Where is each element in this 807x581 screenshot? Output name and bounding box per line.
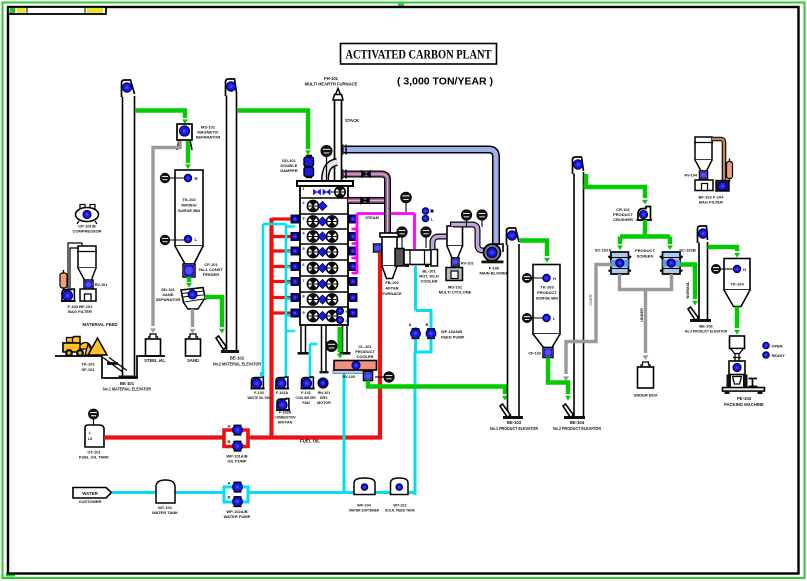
svg-text:PRODUCT: PRODUCT [537,290,557,295]
bucket elevator BE-101 column [119,96,138,379]
product surge bin TK-103 [522,265,560,348]
gauge right of BL-101 [421,227,431,248]
silencer capsule F-104 [727,159,733,183]
furnace burner nozzles left/right [291,215,358,318]
label RH-101 [317,391,331,405]
label SC-102B [679,248,696,253]
label F-101 [296,391,317,405]
green pipe SD-101 to BE-102 boot [205,297,225,334]
water tank WT-101 [152,480,178,515]
svg-text:CRUSHER: CRUSHER [613,217,633,222]
svg-text:COMBUSTION: COMBUSTION [275,416,296,420]
green pipe BE-106 to TK-104 [708,247,741,258]
svg-text:F-103: F-103 [254,391,264,395]
gauge above steam header [401,192,412,212]
green pipe CF-101 to SD-101 [186,277,192,288]
label UNDER [639,308,644,322]
surge bin TK-102 [160,170,203,264]
drum STEEL etc [144,334,166,363]
fuel oil tank OT-101 [85,409,104,447]
green pipe BE-101 to MS-101 [135,111,188,125]
cyan branch cooling dry fan [310,342,319,377]
label BE-102 [213,356,261,367]
water pump WP-102A [228,481,243,493]
svg-text:PRODUCT: PRODUCT [635,248,655,253]
bucket elevator BE-103 head [507,228,520,245]
red pipe riser to furnace burners [269,218,273,440]
svg-text:TK-104: TK-104 [730,282,744,287]
sand separator SD-101 [181,288,206,310]
svg-text:H: H [195,176,198,181]
svg-text:WATER: WATER [82,491,98,496]
label BE-103 [490,420,538,431]
label F-106 [479,266,508,276]
feed pump WF-102A [409,322,421,339]
svg-text:H: H [346,310,349,314]
bag filter BF-101 hopper box [80,289,96,301]
svg-text:FB-102: FB-102 [385,280,399,285]
valve RV-102 [452,258,474,266]
svg-text:BAG FILTER: BAG FILTER [699,200,723,205]
svg-text:PACKING MACHINE: PACKING MACHINE [724,402,764,407]
cyan pipe water pump loop [224,487,248,502]
multi hearth furnace FH-101 body [297,181,353,325]
label OT-101 [79,450,109,460]
svg-text:RH-101: RH-101 [318,391,331,395]
gray over-size return line [563,265,611,382]
double damper DD-101 [304,156,314,178]
label MD-101 [439,285,472,295]
product screen SC-102A [609,252,632,274]
title box ACTIVATED CARBON PLANT [341,44,497,65]
green pipe CF-102 to BE-104 boot [548,358,571,401]
valve RV-104 [684,171,707,179]
green pipe MS-101 to TK-102 [185,141,191,169]
product screen SC-102B [660,252,683,274]
svg-text:No.1 MATERIAL ELEVATOR: No.1 MATERIAL ELEVATOR [103,387,151,392]
fan F-103 waste oil [251,372,265,389]
furnace top gauge [321,145,332,181]
svg-text:AFTER: AFTER [385,286,398,291]
gray under-size line to under box [620,274,672,360]
svg-text:COOLER: COOLER [420,279,437,284]
svg-text:FEED PUMP: FEED PUMP [441,335,465,340]
cyan pipe feed pump loop WF-102 [416,266,432,352]
oil pump WP-101A [228,424,243,436]
svg-text:A: A [228,481,231,486]
svg-text:AIR FAN: AIR FAN [278,421,293,425]
burner valve FB-102 [374,244,382,252]
label WP-101A/B [226,454,247,464]
svg-text:F-102B: F-102B [279,411,292,415]
svg-text:STEAM: STEAM [365,215,379,220]
svg-text:DAMPER: DAMPER [280,168,297,173]
furnace hearth internals [307,187,348,324]
label STEAM [365,215,379,220]
svg-text:SCREEN: SCREEN [637,254,654,259]
label NORMAL [685,281,690,299]
svg-text:SURGE BIN: SURGE BIN [178,208,200,213]
H/L indicator near FB-102 [422,208,434,222]
svg-text:A: A [409,322,412,327]
red pipe fuel oil main [104,435,224,439]
gooseneck duct furnace to stack [325,162,337,181]
feed pump WF-102B [426,322,436,339]
legend OPER READY [763,342,785,358]
gauge on MD duct 2 [477,210,487,227]
label BF-102 F-104 [699,195,725,205]
green pipe BE-104 to CR-101 [584,174,649,205]
svg-text:WATER PUMP: WATER PUMP [224,514,251,519]
label FH-101 [305,76,358,87]
ground line and feed pit TK-101/SF-101 [55,356,165,378]
fan F-103bf [61,289,76,301]
water supply flag WATER [73,488,112,505]
svg-text:MULTI HEARTH FURNACE: MULTI HEARTH FURNACE [305,82,358,87]
gauge left of BL-101 [397,227,407,248]
product bin TK-104 [711,259,750,307]
label CR-101 [613,207,633,222]
label CF-101 [199,262,223,277]
svg-text:No.1 PRODUCT ELEVATOR: No.1 PRODUCT ELEVATOR [490,426,538,431]
fan F-101 [301,377,315,389]
after-burn furnace FB-102 [380,233,399,279]
furnace stack [333,89,359,182]
svg-text:H: H [743,267,746,272]
svg-text:SC-102B: SC-102B [679,248,696,253]
svg-text:BE-101: BE-101 [120,381,135,386]
svg-text:CF-102: CF-102 [528,352,541,356]
bucket elevator BE-106 head [698,226,708,243]
svg-text:B: B [228,439,231,444]
svg-text:No.2 MATERIAL ELEVATOR: No.2 MATERIAL ELEVATOR [213,362,261,367]
label WP-102A/B [224,509,251,519]
svg-text:FH-101: FH-101 [324,76,339,81]
product cooler CL-101 [333,361,377,374]
magnetic separator MS-101 [177,124,192,150]
svg-text:STEEL etc.: STEEL etc. [144,358,166,363]
feeder CF-101 [183,264,195,277]
bag filter BF-101 [68,243,97,289]
bucket elevator BE-103 boot chute [500,404,511,418]
valve RV-101 [84,280,107,289]
fan F-104 [716,181,729,192]
label MS-101 [196,125,221,140]
label PRODUCT SCREEN [635,248,655,259]
product crusher CR-101 [637,207,653,221]
svg-text:TK-102: TK-102 [182,197,196,202]
bucket elevator BE-101 head [122,80,135,97]
label DD-101 [280,158,297,173]
svg-text:UNDER BOX: UNDER BOX [633,393,657,398]
fan F-102A [275,377,289,389]
BF-102 dust box [695,180,713,191]
toolbar strip top-left [8,7,106,14]
subtitle 3000 TON/YEAR [397,76,493,88]
label F-102B [275,411,296,425]
svg-text:COOLER: COOLER [356,354,373,359]
lavender duct MD-101 to F-106 [453,225,486,251]
svg-text:B: B [228,495,231,500]
green discharge furnace to cooler [337,327,344,359]
svg-text:SAND: SAND [187,358,199,363]
label F-103 [248,391,271,400]
magenta steam header [352,214,415,275]
svg-text:SF-101: SF-101 [81,367,95,372]
green pipe TK-104 to packing [734,307,740,335]
svg-text:FEEDER: FEEDER [203,272,219,277]
green main product line to BE-103 [368,381,508,401]
svg-text:ACTIVATED CARBON PLANT: ACTIVATED CARBON PLANT [346,48,492,62]
svg-text:BE-104: BE-104 [570,420,585,425]
svg-text:B: B [426,322,429,327]
svg-text:TK-103: TK-103 [540,285,554,290]
green pipe BE-102 to DD-101 [237,111,311,156]
svg-text:FUEL OIL: FUEL OIL [300,439,320,444]
svg-text:MATERIAL FEED: MATERIAL FEED [82,322,117,327]
compressor CP-101/B [76,205,99,225]
svg-text:MIXING/: MIXING/ [181,203,197,208]
svg-text:MAIN BLOWER: MAIN BLOWER [479,271,508,276]
label SD-101 [156,287,181,302]
svg-text:TK-101: TK-101 [81,362,95,367]
svg-text:WATER SOFTENER: WATER SOFTENER [349,509,379,513]
svg-text:WT-102: WT-102 [393,504,406,508]
label WF-102A/B [441,329,465,340]
cyan riser to feed pumps [414,352,417,495]
svg-text:RV-101: RV-101 [95,283,108,287]
svg-text:SEPARATOR: SEPARATOR [156,297,181,302]
svg-text:DRY.: DRY. [320,396,328,400]
svg-text:FUEL OIL TANK: FUEL OIL TANK [79,455,109,460]
cooler motor gauge [326,340,337,351]
svg-text:A: A [228,424,231,429]
material pile [88,338,107,355]
svg-text:MULTI CYCLONE: MULTI CYCLONE [439,290,472,295]
red pipe main to FB-102 [251,253,380,438]
svg-text:READY: READY [772,354,786,358]
bucket elevator BE-102 head [226,79,237,96]
cyan branch to product cooler [343,371,346,492]
svg-text:WF-102A/B: WF-102A/B [441,329,462,334]
bucket elevator BE-106 boot chute [688,307,699,321]
drum SAND [186,334,201,363]
svg-text:OIL PUMP: OIL PUMP [227,459,247,464]
water pump WP-102B [228,495,243,507]
furnace legs [298,325,351,355]
brown pipe BF-102 to F-104 [712,139,724,181]
solution tank WT-102 [385,478,415,513]
svg-text:STACK: STACK [345,118,359,123]
cyan pipe water main [112,491,416,494]
drum UNDER BOX [633,362,657,398]
svg-text:CUSTOMER: CUSTOMER [79,499,102,504]
bucket elevator BE-106 column [690,242,711,322]
furnace discharge chute legs [320,325,329,373]
rotary cooler BL-101 [395,249,438,268]
svg-text:NORMAL: NORMAL [685,281,690,299]
label BE-101 [103,381,151,392]
svg-text:SEPARATOR: SEPARATOR [196,135,221,140]
bag filter BF-102 [694,137,713,171]
MD-101 dust box [446,268,463,281]
svg-text:No.2 PRODUCT ELEVATOR: No.2 PRODUCT ELEVATOR [553,426,601,431]
label CP-101/B [73,224,102,234]
multi cyclone MD-101 [447,226,463,258]
feeder CF-102 [528,348,553,358]
svg-text:LG: LG [88,437,93,441]
valve RV-105 [342,372,372,381]
svg-text:OPER.: OPER. [772,344,784,348]
bucket elevator BE-102 column [221,93,239,353]
label TK-101 SF-101 [81,362,95,373]
green pipe CR-101 to screens [617,220,673,250]
bucket elevator BE-104 head [573,157,584,174]
label SC-102A [595,248,612,253]
svg-text:RV-102: RV-102 [461,262,474,266]
svg-text:SOLN. FEED TANK: SOLN. FEED TANK [385,509,415,513]
svg-text:H: H [553,276,556,281]
butterfly valve on purple duct upper [362,170,371,178]
gray pipe SD-101 to sand drum [190,309,196,334]
butterfly valve on purple duct lower [361,197,370,205]
svg-text:F-102A: F-102A [276,391,289,395]
label BL-101 [419,269,439,284]
label F-103 BF-101 [68,304,94,314]
svg-text:RV-104: RV-104 [684,174,697,178]
bucket elevator BE-103 column [503,244,523,419]
svg-text:WASTE OIL FAN: WASTE OIL FAN [248,396,271,400]
svg-text:COMPRESSOR: COMPRESSOR [73,229,102,234]
red pipe oil pump loop [224,430,272,447]
red pipe burner branches [272,219,294,313]
svg-text:UNDER: UNDER [639,308,644,322]
oil pump WP-101B [228,439,243,451]
svg-text:OVER: OVER [588,294,593,305]
label BE-104 [553,420,601,431]
wheel loader [63,337,94,358]
label BE-106 [685,324,727,334]
svg-text:No.3 PRODUCT ELEVATOR: No.3 PRODUCT ELEVATOR [685,329,727,334]
svg-text:RV-105: RV-105 [342,375,355,379]
fan F-102B [276,399,290,411]
svg-text:SURGE BIN: SURGE BIN [536,296,558,301]
lavender duct BL-101 to MD-101 [433,237,449,250]
packing machine PE-104 [723,336,765,394]
svg-text:( 3,000 TON/YEAR ): ( 3,000 TON/YEAR ) [397,76,493,88]
svg-text:MOTOR: MOTOR [317,401,331,405]
green pipe SC-102B to BE-106 [680,265,698,306]
svg-text:COOLING DRY.: COOLING DRY. [296,396,317,400]
silencer capsule near F-103 [60,270,67,291]
label F-102A [276,391,289,395]
svg-text:PE-104: PE-104 [737,396,752,401]
svg-text:L: L [195,237,198,242]
label CL-101 [355,344,375,359]
label FB-102 [382,280,402,296]
gauge on MD duct 1 [461,210,471,227]
svg-text:WF-104: WF-104 [357,504,371,508]
motor RH-101 [317,377,328,388]
bucket elevator BE-104 boot chute [563,404,574,418]
svg-text:BE-102: BE-102 [230,356,245,361]
cyan branch furnace cooling left [263,224,296,377]
svg-text:BAG FILTER: BAG FILTER [68,309,92,314]
svg-text:SC-102A: SC-102A [595,248,612,253]
label PE-104 [724,396,764,407]
svg-text:FURNACE: FURNACE [382,291,402,296]
main blower F-106 [482,244,504,263]
bucket elevator BE-102 boot chute [216,336,227,350]
periwinkle exhaust duct to main blower [343,145,496,246]
svg-text:F-101: F-101 [301,391,311,395]
svg-text:BE-103: BE-103 [507,420,522,425]
label MATERIAL FEED [82,322,117,327]
gray pipe MS-101 to steel drum [150,141,180,333]
purple duct furnace to after-burner [343,170,388,234]
green pipe BE-103 to TK-103 [519,241,550,263]
bucket elevator BE-104 column [564,172,585,419]
label OVER [588,294,593,305]
water softener WF-104 [349,478,379,513]
svg-text:WATER TANK: WATER TANK [152,510,178,515]
svg-text:FAN: FAN [302,401,310,405]
label FUEL OIL [300,439,320,444]
gauge near RV-105 [375,372,394,382]
